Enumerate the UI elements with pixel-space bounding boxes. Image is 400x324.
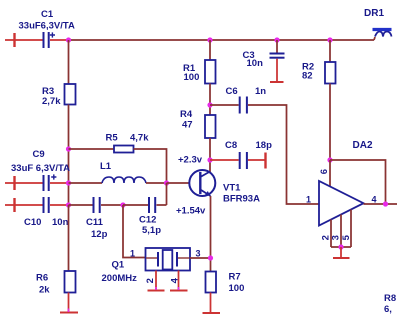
svg-text:C11: C11 <box>86 217 104 228</box>
svg-text:Q1: Q1 <box>112 260 125 271</box>
inductor L1 <box>100 161 146 183</box>
node L1/base/R5/C12 junction <box>164 180 169 185</box>
wire: rail down to R2 <box>329 40 331 62</box>
resistor R6 <box>36 271 76 296</box>
wire: R2 bottom to pin6 node <box>329 84 331 161</box>
wire: R5 left <box>69 148 115 150</box>
node Q1 pin1 drop <box>120 202 125 207</box>
wire: Q1 pin4 stem <box>178 271 180 291</box>
wire: C12 left <box>123 204 148 206</box>
wire: C11 to Q1 pin1 node <box>101 204 123 206</box>
wire: pins bus <box>331 246 351 248</box>
svg-text:10n: 10n <box>52 217 69 228</box>
terminal at C10 row <box>13 198 15 212</box>
ground (Q1 pin4) <box>170 290 188 292</box>
wire: DA2 pin 3 <box>340 215 342 248</box>
svg-text:VT1: VT1 <box>223 183 241 194</box>
capacitor C10 <box>24 197 69 228</box>
svg-text:C8: C8 <box>225 140 237 151</box>
svg-text:18p: 18p <box>256 140 273 151</box>
node R1 top <box>207 37 212 42</box>
wire: base wire to VT1 <box>167 182 190 184</box>
svg-text:33uF 6,3V/TA: 33uF 6,3V/TA <box>11 163 70 174</box>
wire: L1 to base node <box>146 182 167 184</box>
wire: feedback top and right side <box>330 160 386 204</box>
svg-text:10n: 10n <box>247 58 264 69</box>
resistor R5 <box>106 133 150 153</box>
node R2 top <box>327 37 332 42</box>
wire: C10 node to C11 <box>69 204 93 206</box>
ground (DA2) <box>333 257 350 259</box>
node emitter/Q1 pin3 <box>208 255 213 260</box>
svg-text:C6: C6 <box>226 86 238 97</box>
node C8 junction <box>207 157 212 162</box>
svg-text:L1: L1 <box>100 161 112 172</box>
svg-text:12p: 12p <box>91 229 108 240</box>
resistor R7 <box>206 272 245 295</box>
svg-text:1n: 1n <box>255 86 266 97</box>
wire: x=68.5 column rail to R3 <box>68 40 70 84</box>
wire: emitter down to R7 <box>210 196 212 272</box>
svg-text:2: 2 <box>320 235 331 240</box>
ground bar (C3) <box>270 81 284 83</box>
inductor DR1 <box>364 8 392 40</box>
capacitor C3 <box>243 40 285 69</box>
svg-text:4,7k: 4,7k <box>130 133 149 144</box>
wire: DA2 pin 5 <box>350 210 352 248</box>
ground (Q1 pin2) <box>148 290 165 292</box>
node C10 junction <box>66 202 71 207</box>
ground (R7) <box>203 312 221 314</box>
wire: R4 bottom to collector <box>209 138 211 172</box>
wire: R7 to ground <box>210 293 212 313</box>
svg-text:100: 100 <box>184 72 200 83</box>
capacitor C6 <box>210 86 266 114</box>
node C9/L1 junction <box>66 180 71 185</box>
svg-text:82: 82 <box>302 71 313 82</box>
node A (C1/R3 junction) <box>66 37 71 42</box>
wire: Q1 pin2 stem <box>155 271 157 291</box>
resistor R4 <box>180 109 216 138</box>
svg-text:R6: R6 <box>36 273 48 284</box>
resistor R1 <box>183 60 216 84</box>
wire: down from base node to C12 row <box>166 183 168 205</box>
wire: C6 right, down, to DA2 pin1 <box>248 105 319 204</box>
svg-text:100: 100 <box>229 283 245 294</box>
svg-text:1: 1 <box>130 249 135 259</box>
wire: pin 6 down to amp <box>329 160 331 186</box>
wire: left stub to C1 <box>5 39 43 41</box>
capacitor C9 <box>11 149 70 191</box>
wire: C8 right to open terminal <box>248 159 266 161</box>
node pin6/feedback <box>327 157 332 162</box>
svg-text:R8: R8 <box>384 293 396 304</box>
svg-text:47: 47 <box>182 120 193 131</box>
svg-text:5: 5 <box>341 234 352 240</box>
resistor R3 <box>42 84 76 107</box>
svg-text:6: 6 <box>319 169 330 174</box>
wire: top rail from C1 node to DR1 <box>69 39 375 41</box>
svg-text:5,1p: 5,1p <box>142 225 161 236</box>
capacitor C12 <box>139 197 161 236</box>
crystal resonator Q1 <box>102 248 191 284</box>
terminal at C9 row <box>13 176 15 190</box>
svg-text:2: 2 <box>145 278 156 283</box>
svg-text:R7: R7 <box>229 272 241 283</box>
terminal at C1 row <box>13 33 15 47</box>
svg-text:2,7k: 2,7k <box>42 96 61 107</box>
svg-text:C9: C9 <box>33 149 45 160</box>
resistor R2 <box>302 62 336 84</box>
wire: R1 bottom to R4 <box>209 84 211 116</box>
wire: node to L1 <box>69 182 103 184</box>
ground (R6) <box>60 312 78 314</box>
svg-text:200MHz: 200MHz <box>102 273 138 284</box>
wire: R5 right then down to base node <box>134 149 167 183</box>
wire: C12 right to corner up <box>157 204 167 206</box>
svg-text:4: 4 <box>372 195 377 205</box>
wire: Q1 pin1 drop down and right <box>123 205 145 258</box>
wire: Q1 pin3 to emitter line <box>190 257 211 259</box>
svg-text:BFR93A: BFR93A <box>223 194 260 205</box>
svg-text:4: 4 <box>169 277 180 283</box>
wire: left stub to C9 <box>5 182 43 184</box>
svg-text:DA2: DA2 <box>353 140 373 151</box>
wire: left stub to C10 <box>5 204 43 206</box>
svg-text:1: 1 <box>306 195 311 205</box>
terminal C8 right <box>264 153 266 169</box>
wire: DA2 output pin 4 <box>364 203 398 205</box>
node R5 left junction <box>66 146 71 151</box>
node bus center <box>338 244 343 249</box>
svg-text:3: 3 <box>196 249 201 259</box>
svg-text:R4: R4 <box>180 109 193 120</box>
wire: rail down to R1 <box>209 40 211 60</box>
svg-text:C12: C12 <box>139 215 156 226</box>
capacitor C1 <box>19 9 75 48</box>
node output/feedback <box>383 201 388 206</box>
svg-text:C1: C1 <box>41 9 54 20</box>
wire: C10 node down to R6 <box>68 205 70 271</box>
svg-text:DR1: DR1 <box>364 8 384 19</box>
svg-text:2k: 2k <box>39 285 50 296</box>
svg-text:C10: C10 <box>24 217 41 228</box>
capacitor C8 <box>210 140 272 169</box>
op-amp DA2 <box>319 140 373 226</box>
wire: bus to ground <box>340 247 342 258</box>
svg-text:6,: 6, <box>384 304 392 315</box>
svg-text:+2.3v: +2.3v <box>178 155 203 166</box>
svg-text:33uF6,3V/TA: 33uF6,3V/TA <box>19 21 75 32</box>
svg-text:+1.54v: +1.54v <box>176 206 206 217</box>
transistor VT1 <box>189 170 260 205</box>
svg-text:R5: R5 <box>106 133 119 144</box>
node C6 junction <box>207 102 212 107</box>
wire: R6 to ground <box>68 293 70 313</box>
wire: R3 bottom down to C10 row <box>68 105 70 206</box>
capacitor C11 <box>86 197 108 240</box>
wire: C3 bottom stub <box>276 59 278 82</box>
node C3 top <box>274 37 279 42</box>
wire: DA2 pin 2 <box>330 220 332 248</box>
